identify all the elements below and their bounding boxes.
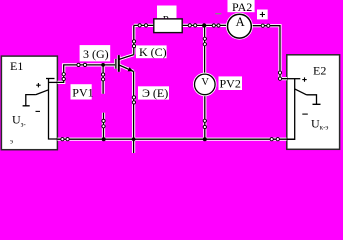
voltmeter PV2 [195,74,216,95]
svg-text:PV1: PV1 [72,86,93,100]
PV2 branch wires (casing) [203,26,206,140]
jack [276,138,279,141]
node junction bottom PV2 [203,137,207,141]
jack [102,119,105,122]
bottom bus wire (casing) [57,138,286,141]
PV1 lower stub (casing) [102,113,105,140]
IGBT leads (casing) [116,55,134,72]
label PV1 [71,84,94,99]
resistor R [154,19,182,33]
svg-text:E2: E2 [313,64,326,78]
R label box [157,6,177,19]
jack [203,37,206,40]
jack [267,24,270,27]
E1 minus polarity [36,110,41,112]
jack [278,71,281,74]
label K (C) [136,45,167,59]
jack [278,77,281,80]
jack [132,96,135,99]
node G junction [101,63,105,67]
svg-text:PA2: PA2 [232,0,252,14]
jack [102,125,105,128]
E2 wiper blade [295,89,307,95]
svg-text:V: V [201,77,209,88]
jack [132,40,135,43]
node junction bottom emitter [131,137,136,142]
IGBT gate bar [115,59,117,69]
svg-text:э: э [10,138,13,146]
PV2 branch wires [204,26,206,140]
jack [77,63,80,66]
E1 wiper contact [23,95,36,106]
ammeter minus mark [215,13,221,15]
jack [62,77,65,80]
jack [101,73,104,76]
E2 plus polarity [302,77,306,81]
wire E1 plus output to gate node (casing) [57,65,115,83]
node junction top [202,23,206,27]
bottom bus wire [57,138,294,140]
jack [101,78,104,81]
svg-text:3 (G): 3 (G) [83,47,109,61]
source E2 box [287,55,340,150]
ammeter PA2 [228,14,252,38]
jack [212,24,215,27]
jack [66,138,69,141]
jack [194,24,197,27]
jack [217,24,220,27]
svg-text:E1: E1 [10,59,23,73]
jack [188,24,191,27]
label 3 (G) [80,45,111,61]
jack [62,73,65,76]
jack [61,138,64,141]
jack [270,138,273,141]
svg-text:PV2: PV2 [220,77,241,91]
E1 wiper blade [36,90,49,95]
label PA2 [228,0,255,14]
label PV2 [219,76,243,90]
svg-text:Э (E): Э (E) [142,86,168,100]
jack [132,101,135,104]
jack [83,63,86,66]
IGBT emitter arrow [128,67,134,71]
E2 minus polarity [302,113,308,115]
emitter fall wire (casing) [132,72,135,154]
jack [203,119,206,122]
IGBT main bar [118,55,120,72]
jack [203,125,206,128]
top bus wire (casing) [134,25,287,78]
E1 plus polarity [36,83,40,87]
top bus wire [134,25,287,78]
collector riser wire [133,25,135,54]
jack [132,44,135,47]
svg-text:A: A [236,15,245,29]
PV1 upper stub [102,65,104,94]
E2 wiper contact [307,95,321,105]
IGBT emitter lead [119,65,134,72]
jack [261,24,264,27]
PV1 lower stub [103,113,105,140]
E1 internal wire [46,79,57,140]
label Э (E) [138,86,169,100]
E2 internal wire [287,79,300,140]
svg-text:K (C): K (C) [139,45,167,59]
collector riser wire (casing) [132,25,135,54]
emitter fall wire [133,72,135,154]
node junction bottom left [102,137,106,141]
source E1 box [1,56,57,150]
ammeter plus box [257,10,268,20]
jack [144,24,147,27]
jack [138,24,141,27]
IGBT collector lead [119,55,134,60]
wire E1 plus output to gate node [57,65,115,83]
PV1 upper stub (casing) [101,65,104,94]
jack [203,43,206,46]
